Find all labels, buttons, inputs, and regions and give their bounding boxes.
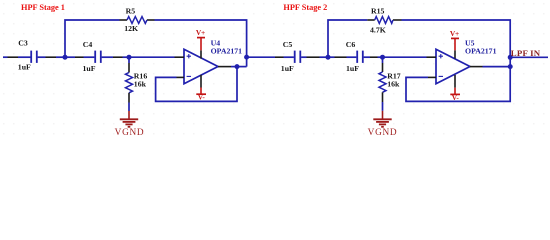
svg-text:12K: 12K [124,24,138,33]
power VGND ground 1 [115,111,145,138]
wire: node A2 up and top rail to R15 [328,20,367,57]
svg-text:1uF: 1uF [83,64,96,73]
capacitor C5 [295,51,301,63]
pin: U4 V- supply pin [200,75,202,88]
wire: U4 output row to node D1 vertical [231,66,247,68]
svg-text:OPA2171: OPA2171 [465,46,497,55]
power V+ of U5 [450,29,459,50]
wire: feedback loop U4 output to inverting input [156,67,237,102]
svg-text:OPA2171: OPA2171 [211,46,243,55]
resistor R17 [379,57,386,102]
svg-text:16k: 16k [387,80,400,89]
power V+ of U4 [196,28,205,50]
wire: node A1 to C4 [65,56,94,58]
op-amp U5 [427,49,483,84]
node B1 junction C4/R16/U4+ [127,55,132,60]
svg-text:R15: R15 [371,7,385,16]
capacitor C6 [357,51,363,63]
svg-text:4.7K: 4.7K [370,26,386,35]
node D1 junction rail/out to stage 2 [244,55,249,60]
svg-text:V-: V- [452,93,460,102]
svg-text:HPF Stage 1: HPF Stage 1 [21,3,65,12]
wire: node B2 to U5 +input [383,56,427,58]
op-amp U4 [175,49,232,84]
wire: node A1 up and top rail to R5 [65,20,120,57]
wire: input net into C3 [3,56,31,58]
svg-text:C3: C3 [18,39,28,48]
node A2 junction C5/C6/R15 [326,55,331,60]
power VGND ground 2 [368,111,398,138]
wire: R17 to VGND [382,102,384,111]
wire: R15 to rail corner down through node D2 [402,20,511,67]
wire: feedback loop U5 output to inverting input [406,67,510,102]
svg-text:C4: C4 [83,40,93,49]
svg-text:VGND: VGND [368,128,398,138]
node B2 junction C6/R17/U5+ [380,55,385,60]
wire: R16 to VGND [128,103,130,112]
wire: R5 to rail corner down to node D1 and output row [155,20,247,67]
svg-text:C5: C5 [283,40,293,49]
svg-text:1uF: 1uF [346,64,359,73]
svg-text:1uF: 1uF [281,64,294,73]
wire: C5 to node A2 [301,56,328,58]
pin: U5 V- supply pin [454,75,456,88]
svg-text:HPF Stage 2: HPF Stage 2 [283,3,327,12]
node C1 junction output/feedback [235,64,240,69]
node D2 junction rail/LPF IN [508,55,513,60]
resistor R5 [120,17,155,24]
wire: stage1 output to C5 [247,56,294,58]
node A1 junction C3/C4/R5 [63,55,68,60]
wire: node B1 to U4 +input [129,56,175,58]
svg-text:C6: C6 [346,40,356,49]
wire: LPF IN net [510,56,548,58]
capacitor C3 [31,51,37,63]
wire: C4 to node B1 [102,56,129,58]
wire: C3 to node A1 [38,56,65,58]
svg-text:V-: V- [198,93,206,102]
svg-text:R5: R5 [126,7,136,16]
svg-text:LPF IN: LPF IN [511,48,541,58]
resistor R16 [126,57,133,102]
power V- of U4 [196,88,206,102]
wire: U5 output row to node D2 [483,66,511,68]
svg-text:V+: V+ [450,29,459,38]
resistor R15 [367,17,401,24]
wire: C6 to node B2 [364,56,383,58]
node E2 junction output/feedback [508,64,513,69]
power V- of U5 [450,88,460,102]
capacitor C4 [95,51,101,63]
wire: node A2 to C6 [328,56,356,58]
svg-text:1uF: 1uF [18,62,31,71]
svg-text:16k: 16k [134,80,147,89]
svg-text:VGND: VGND [115,128,145,138]
svg-text:V+: V+ [196,28,205,37]
